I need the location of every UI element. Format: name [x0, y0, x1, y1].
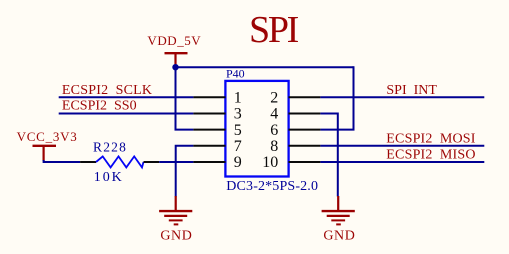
- power VCC_3V3 bar symbol: [33, 146, 57, 161]
- resistor R228 zigzag: [96, 156, 144, 167]
- pin 6 stub: [289, 129, 321, 131]
- wire ECSPI2_MOSI from pin 8: [320, 145, 484, 147]
- wire pin 4 to right ground: [320, 114, 337, 197]
- svg-text:8: 8: [270, 138, 278, 155]
- wire VDD right vertical to pin 6: [320, 66, 353, 129]
- svg-text:GND: GND: [323, 229, 355, 244]
- svg-text:ECSPI2_MOSI: ECSPI2_MOSI: [386, 131, 475, 146]
- pin 1 stub: [193, 96, 225, 98]
- wire ECSPI2_SCLK to pin 1: [59, 96, 194, 98]
- svg-text:5: 5: [234, 122, 242, 139]
- svg-text:10: 10: [262, 154, 278, 171]
- svg-text:9: 9: [234, 154, 242, 171]
- svg-text:1: 1: [234, 90, 242, 107]
- wire VDD left vertical to pin 5: [176, 66, 194, 129]
- svg-text:GND: GND: [160, 229, 192, 244]
- pin 4 stub: [289, 113, 321, 115]
- svg-text:7: 7: [234, 138, 242, 155]
- svg-text:VCC_3V3: VCC_3V3: [17, 129, 78, 144]
- pin 5 stub: [193, 129, 225, 131]
- svg-text:VDD_5V: VDD_5V: [147, 33, 201, 48]
- svg-text:2: 2: [270, 90, 278, 107]
- svg-text:ECSPI2_SS0: ECSPI2_SS0: [62, 99, 137, 114]
- wire resistor to pin 9: [159, 161, 193, 163]
- pin 3 stub: [193, 113, 225, 115]
- node VDD junction dot: [172, 64, 178, 70]
- pin 9 stub: [193, 161, 225, 163]
- svg-text:ECSPI2_SCLK: ECSPI2_SCLK: [62, 83, 152, 98]
- pin 7 stub: [193, 145, 225, 147]
- wire ECSPI2_SS0 to pin 3: [59, 113, 194, 115]
- wire VCC_3V3 to resistor: [44, 160, 81, 162]
- wire SPI_INT from pin 2: [320, 96, 484, 98]
- power VDD_5V bar symbol: [165, 52, 188, 66]
- wire pin 7 to left ground: [176, 146, 194, 197]
- svg-text:3: 3: [234, 106, 242, 123]
- ground left symbol: [159, 196, 192, 224]
- svg-text:10K: 10K: [94, 170, 124, 185]
- pin 8 stub: [289, 145, 321, 147]
- wire VDD horizontal: [176, 66, 354, 68]
- ground right symbol: [322, 196, 355, 224]
- pin 2 stub: [289, 96, 321, 98]
- svg-text:R228: R228: [93, 139, 127, 154]
- svg-text:ECSPI2_MISO: ECSPI2_MISO: [386, 148, 475, 163]
- svg-text:SPI: SPI: [249, 9, 299, 51]
- resistor R228 right lead: [144, 161, 160, 163]
- resistor R1 left lead: [80, 161, 96, 163]
- svg-text:6: 6: [270, 122, 278, 139]
- svg-text:4: 4: [270, 106, 278, 123]
- pin 10 stub: [289, 161, 321, 163]
- wire ECSPI2_MISO from pin 10: [320, 161, 484, 163]
- connector P40 box: [225, 81, 288, 177]
- svg-text:P40: P40: [226, 67, 245, 81]
- svg-text:DC3-2*5PS-2.0: DC3-2*5PS-2.0: [226, 179, 318, 194]
